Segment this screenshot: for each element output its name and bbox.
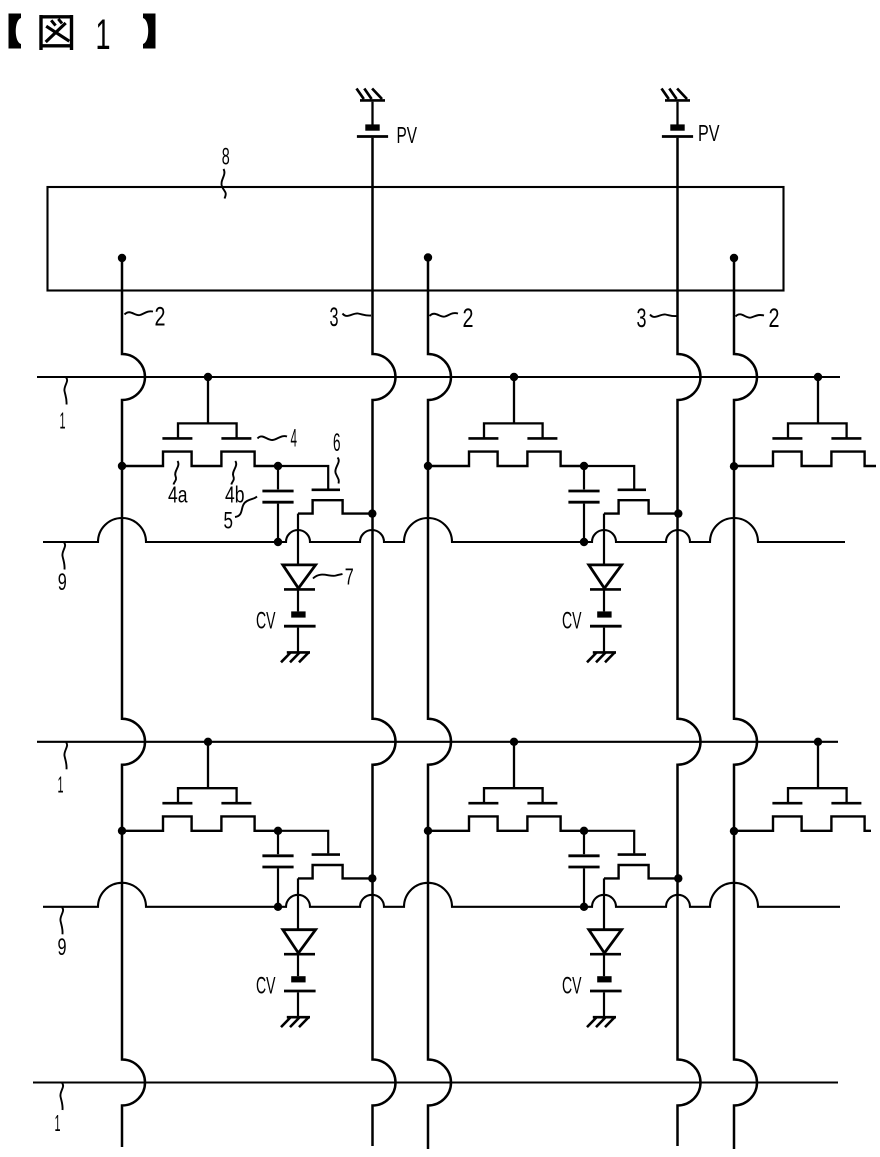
gate bridge of transistor 4 P22: [484, 788, 543, 802]
diode 7 anode wire P21: [297, 878, 299, 928]
photodiode 7 P21: [283, 930, 316, 955]
shift register block 8: [48, 187, 784, 291]
photodiode 7 P11: [283, 565, 316, 590]
CV bias capacitor P22: [590, 976, 622, 991]
svg-text:CV: CV: [562, 608, 582, 635]
wire diode to CV capacitor P11: [297, 589, 299, 611]
leader squiggle from 3 right: [650, 314, 677, 317]
junction dot node on readout line 9 P12: [580, 538, 588, 546]
gate wire of transistor 6 P22: [584, 831, 634, 854]
leader squiggle for label 7: [313, 574, 343, 579]
title digit 1: [96, 11, 111, 59]
junction dot node on column line 2 P23: [730, 827, 738, 835]
wire diode to CV capacitor P12: [603, 589, 605, 611]
gate electrode of transistor 6 P22: [618, 853, 646, 856]
label 9 (readout line upper): [58, 569, 67, 596]
leader squiggle for row label 1 (row line top): [64, 378, 67, 405]
svg-text:7: 7: [345, 563, 354, 589]
capacitor 5 plates P22: [568, 856, 599, 867]
junction dot node on column line 2 P13: [730, 462, 738, 470]
wire chassis to battery right: [676, 102, 678, 125]
label PV right: [698, 120, 720, 146]
wire CV capacitor to ground P21: [297, 992, 299, 1016]
gate electrodes 4a 4b P12: [468, 437, 557, 440]
CV bias capacitor P11: [284, 611, 316, 626]
capacitor 5 bottom lead P21: [277, 868, 279, 906]
svg-text:6: 6: [333, 429, 341, 457]
junction dot node on readout line 9 P22: [580, 903, 588, 911]
gate electrode of transistor 6 P12: [618, 488, 646, 491]
label 2 (right column): [769, 303, 780, 333]
ground symbol P21: [281, 1017, 310, 1027]
ground symbol P22: [587, 1017, 616, 1027]
junction dot node on column line 2 P12: [424, 462, 432, 470]
junction dot node on readout line 9 P11: [274, 538, 282, 546]
junction dot drain node of transistor 6 on line 3 P11: [368, 509, 376, 517]
gate stem of transistor 4 P11: [207, 377, 209, 423]
wire CV capacitor to ground P11: [297, 628, 299, 652]
svg-text:1: 1: [60, 408, 66, 434]
junction dot storage node P21: [274, 827, 282, 835]
svg-text:2: 2: [463, 303, 474, 333]
junction dot drain node of transistor 6 on line 3 P21: [368, 874, 376, 882]
junction dot storage node P22: [580, 827, 588, 835]
column signal line 2 (right): [734, 258, 757, 1149]
channel of transistor 6 P22: [604, 865, 678, 878]
channel of transistors 4a and 4b P13: [734, 452, 876, 466]
label 1 (row line top): [60, 408, 66, 434]
gate bridge of transistor 4 P21: [178, 788, 237, 802]
label 1 (row line bottom): [55, 1110, 61, 1136]
leader squiggle for row label 9 (readout line lower): [60, 907, 63, 934]
svg-text:3: 3: [637, 303, 647, 333]
label 9 (readout line lower): [58, 934, 67, 961]
svg-text:1: 1: [58, 772, 64, 798]
gate bridge of transistor 4 P23: [788, 788, 847, 802]
gate electrodes 4a 4b P13: [772, 437, 861, 440]
gate stem of transistor 4 P13: [817, 377, 819, 423]
channel of transistor 6 P11: [298, 500, 372, 513]
junction dot line 2 left at block 8: [118, 254, 126, 262]
row select line 1 (middle): [37, 741, 838, 743]
channel of transistors 4a and 4b P12: [428, 452, 584, 466]
gate wire of transistor 6 P12: [584, 466, 634, 489]
svg-text:2: 2: [769, 303, 780, 333]
gate electrodes 4a 4b P22: [468, 802, 557, 805]
svg-text:5: 5: [224, 507, 234, 534]
battery source PV left: [357, 124, 388, 136]
leader squiggle for label 5: [235, 497, 257, 518]
junction dot gate of T4 P21 on row 1: [204, 738, 212, 746]
svg-text:CV: CV: [562, 972, 582, 999]
label CV bias P12: [562, 608, 582, 635]
capacitor 5 plates P11: [262, 491, 293, 502]
svg-text:PV: PV: [698, 120, 720, 146]
diode 7 anode wire P11: [297, 514, 299, 564]
CV bias capacitor P21: [284, 976, 316, 991]
column power line 3 (left, from PV): [373, 138, 396, 1146]
channel of transistors 4a and 4b P22: [428, 816, 584, 830]
row select line 1 (bottom): [33, 1081, 838, 1083]
diode 7 anode wire P22: [603, 878, 605, 928]
junction dot line 2 right at block 8: [730, 254, 738, 262]
gate electrode of transistor 6 P21: [312, 853, 340, 856]
title bracket right 】: [143, 14, 156, 49]
label 7 (photodiode): [345, 563, 354, 589]
diode 7 anode wire P12: [603, 514, 605, 564]
gate stem of transistor 4 P22: [513, 742, 515, 788]
leader squiggle from 3 left: [343, 313, 372, 316]
capacitor 5 plates P12: [568, 491, 599, 502]
label 3 (right power column): [637, 303, 647, 333]
junction dot gate of T4 P12 on row 1: [510, 373, 518, 381]
svg-text:CV: CV: [256, 608, 276, 635]
label CV bias P22: [562, 972, 582, 999]
junction dot line 2 middle at block 8: [424, 253, 432, 261]
junction dot drain node of transistor 6 on line 3 P12: [674, 509, 682, 517]
chassis ground of PV supply right: [662, 89, 691, 101]
svg-text:4b: 4b: [225, 481, 245, 507]
label 8 on box: [222, 144, 230, 171]
svg-text:1: 1: [55, 1110, 61, 1136]
title bracket left 【: [9, 14, 22, 49]
gate stem of transistor 4 P12: [513, 377, 515, 423]
label CV bias P21: [256, 972, 276, 999]
svg-text:4a: 4a: [168, 481, 188, 507]
capacitor 5 bottom lead P11: [277, 504, 279, 542]
gate stem of transistor 4 P21: [207, 742, 209, 788]
capacitor 5 top lead P11: [277, 466, 279, 489]
gate wire of transistor 6 P21: [278, 831, 328, 854]
capacitor 5 top lead P12: [583, 466, 585, 489]
junction dot storage node P11: [274, 462, 282, 470]
svg-text:1: 1: [96, 11, 111, 59]
label 2 (left column): [155, 301, 166, 331]
svg-text:9: 9: [58, 569, 67, 596]
leader squiggle for label 4: [258, 436, 288, 440]
channel of transistors 4a and 4b P11: [122, 452, 278, 466]
svg-text:8: 8: [222, 144, 230, 171]
svg-text:3: 3: [330, 302, 339, 332]
leader squiggle for label 4a: [174, 461, 179, 485]
leader squiggle for row label 1 (row line bottom): [60, 1083, 63, 1110]
row select line 1 (top): [37, 376, 840, 378]
channel of transistor 6 P12: [604, 500, 678, 513]
readout line 9 (upper) with crossover hops: [43, 518, 845, 542]
svg-text:CV: CV: [256, 972, 276, 999]
channel of transistors 4a and 4b P21: [122, 816, 278, 830]
junction dot node on column line 2 P11: [118, 462, 126, 470]
wire CV capacitor to ground P22: [603, 992, 605, 1016]
gate bridge of transistor 4 P12: [484, 423, 543, 437]
svg-text:2: 2: [155, 301, 166, 331]
label 4a (first gate): [168, 481, 188, 507]
capacitor 5 top lead P22: [583, 831, 585, 854]
wire CV capacitor to ground P12: [603, 628, 605, 652]
label 4 (double gate transistor): [291, 424, 298, 452]
column power line 3 (right, from PV): [678, 138, 701, 1146]
label 4b (second gate): [225, 481, 245, 507]
leader squiggle for row label 1 (row line middle): [64, 742, 67, 769]
junction dot gate of T4 P23 on row 1: [814, 738, 822, 746]
label PV left: [397, 122, 418, 148]
gate electrode of transistor 6 P11: [312, 488, 340, 491]
junction dot gate of T4 P13 on row 1: [814, 373, 822, 381]
svg-text:PV: PV: [397, 122, 418, 148]
gate bridge of transistor 4 P13: [788, 423, 847, 437]
column signal line 2 (middle): [428, 258, 451, 1150]
column signal line 2 (left): [122, 258, 145, 1147]
junction dot storage node P12: [580, 462, 588, 470]
svg-text:4: 4: [291, 424, 298, 452]
leader squiggle for label 6: [335, 458, 338, 484]
label 5 (storage capacitor): [224, 507, 234, 534]
capacitor 5 top lead P21: [277, 831, 279, 854]
junction dot node on column line 2 P22: [424, 827, 432, 835]
wire chassis to battery left: [371, 102, 373, 125]
gate bridge of transistor 4 P11: [178, 423, 237, 437]
junction dot gate of T4 P22 on row 1: [510, 738, 518, 746]
wire diode to CV capacitor P22: [603, 954, 605, 976]
chassis ground of PV supply left: [357, 89, 386, 101]
label 6 (reset transistor): [333, 429, 341, 457]
label 3 (left power column): [330, 302, 339, 332]
junction dot gate of T4 P11 on row 1: [204, 373, 212, 381]
battery source PV right: [662, 124, 693, 136]
svg-text:9: 9: [58, 934, 67, 961]
leader squiggle to line 2 left: [125, 311, 154, 315]
capacitor 5 plates P21: [262, 856, 293, 867]
ground symbol P11: [281, 652, 310, 662]
readout line 9 (lower) with crossover hops: [43, 883, 840, 907]
channel of transistors 4a and 4b P23: [734, 816, 871, 830]
gate stem of transistor 4 P23: [817, 742, 819, 788]
gate electrodes 4a 4b P23: [772, 802, 861, 805]
leader squiggle to line 2 middle: [430, 313, 459, 317]
capacitor 5 bottom lead P12: [583, 504, 585, 542]
photodiode 7 P22: [589, 930, 622, 955]
channel of transistor 6 P21: [298, 865, 372, 878]
label 1 (row line middle): [58, 772, 64, 798]
title kanji 図: [40, 15, 74, 50]
label 2 (middle column): [463, 303, 474, 333]
gate wire of transistor 6 P11: [278, 466, 328, 489]
wire diode to CV capacitor P21: [297, 954, 299, 976]
junction dot node on readout line 9 P21: [274, 903, 282, 911]
gate electrodes 4a 4b P21: [162, 802, 251, 805]
leader squiggle to line 2 right: [736, 314, 765, 317]
gate electrodes 4a 4b P11: [162, 437, 251, 440]
junction dot drain node of transistor 6 on line 3 P22: [674, 874, 682, 882]
junction dot node on column line 2 P21: [118, 827, 126, 835]
CV bias capacitor P12: [590, 611, 622, 626]
leader squiggle for row label 9 (readout line upper): [62, 543, 65, 570]
label CV bias P11: [256, 608, 276, 635]
leader squiggle for label 4b: [231, 461, 236, 485]
label 8 leader squiggle: [221, 169, 225, 199]
capacitor 5 bottom lead P22: [583, 868, 585, 906]
ground symbol P12: [587, 652, 616, 662]
photodiode 7 P12: [589, 565, 622, 590]
